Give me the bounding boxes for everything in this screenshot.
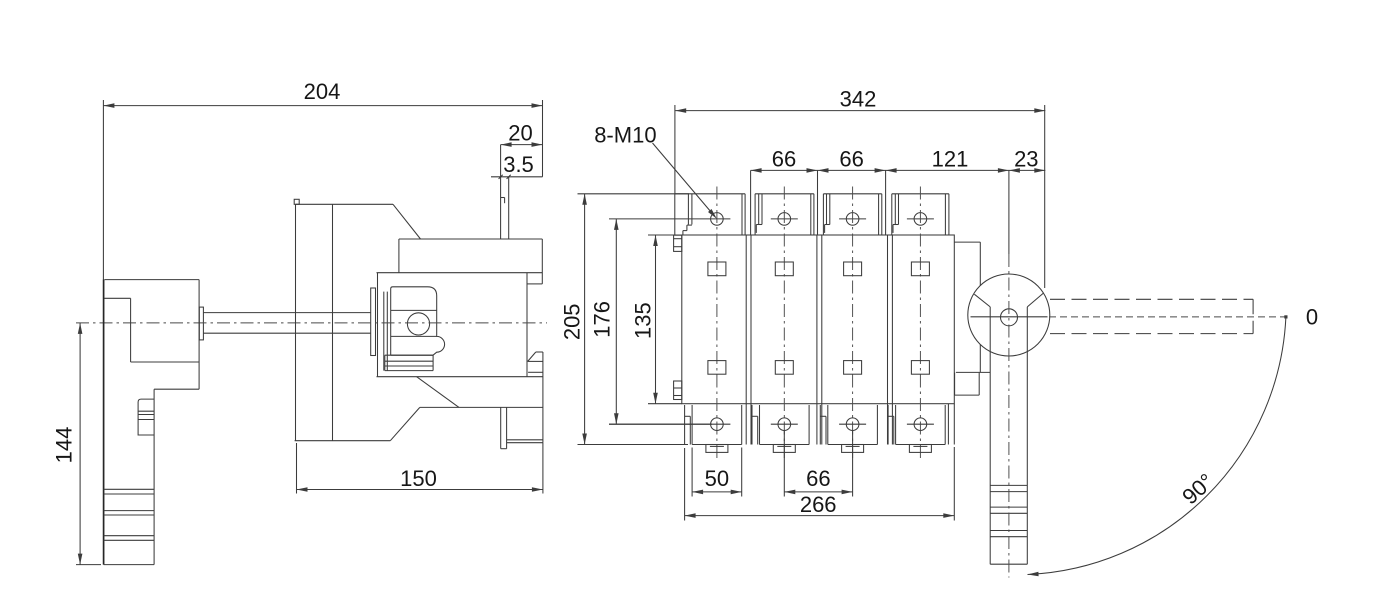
dimension row 66 66 121 23 bbox=[751, 147, 1046, 255]
front view bottom terminal hole 1 (M10) bbox=[609, 418, 730, 431]
dimension 66 bottom (hole spacing) bbox=[784, 430, 852, 497]
front view top terminal tab 1 bbox=[675, 194, 745, 235]
svg-text:150: 150 bbox=[400, 466, 437, 491]
dimension 135 (body height) bbox=[631, 235, 682, 404]
front view bottom terminal hole 3 (M10) bbox=[839, 418, 866, 431]
front view bottom terminal hole 4 (M10) bbox=[907, 418, 934, 431]
front view top terminal tab 4 bbox=[892, 194, 949, 235]
front view left mounting clips bbox=[674, 235, 682, 399]
svg-text:23: 23 bbox=[1014, 147, 1038, 172]
front view handle arm bbox=[990, 254, 1027, 578]
side view upper housing bbox=[377, 239, 543, 284]
front view cover squares bbox=[708, 262, 930, 374]
front view bottom terminal tab 4 bbox=[888, 405, 945, 445]
label 90 degrees bbox=[1177, 469, 1218, 510]
front view top terminal hole 4 (M10) bbox=[907, 213, 934, 226]
side view mounting plate bbox=[294, 199, 420, 440]
front view bottom terminal foot 1 bbox=[706, 445, 728, 453]
front view bottom terminal foot 4 bbox=[909, 445, 931, 453]
front view bottom terminal foot 2 bbox=[773, 445, 795, 453]
svg-text:3.5: 3.5 bbox=[503, 152, 534, 177]
side view shaft bbox=[199, 307, 370, 340]
dimension 205 (front view height) bbox=[560, 194, 689, 445]
svg-text:66: 66 bbox=[806, 466, 830, 491]
side view horizontal centerline bbox=[76, 322, 547, 324]
front view handle hub bbox=[968, 274, 1050, 356]
front view top terminal tab 3 bbox=[823, 194, 881, 235]
svg-text:342: 342 bbox=[840, 87, 877, 112]
front view bottom terminal tab 1 bbox=[685, 405, 742, 445]
svg-text:66: 66 bbox=[839, 147, 863, 172]
front view bottom terminal foot 3 bbox=[842, 445, 864, 453]
dimension 150 (side view base width) bbox=[297, 443, 543, 494]
dimension 3.5 (terminal plate thickness) bbox=[491, 152, 543, 179]
svg-text:121: 121 bbox=[932, 147, 969, 172]
side view handle grip bbox=[138, 399, 154, 435]
front view bottom terminal hole 2 (M10) bbox=[771, 418, 798, 431]
dimension 204 (side view overall width) bbox=[103, 79, 542, 280]
front view top terminal hole 3 (M10) bbox=[839, 213, 866, 226]
svg-text:266: 266 bbox=[800, 492, 837, 517]
front view handle side bracket bbox=[954, 242, 990, 395]
front view top terminal hole 1 (M10) bbox=[609, 213, 730, 226]
side view bottom flange bracket bbox=[385, 355, 433, 370]
dimension 50 (bottom tab width) bbox=[692, 448, 742, 497]
front view pole divider walls bbox=[746, 235, 892, 404]
svg-text:0: 0 bbox=[1306, 305, 1318, 330]
side view bottom terminal plate bbox=[501, 407, 543, 448]
svg-text:144: 144 bbox=[52, 427, 77, 464]
side view inner mechanism plate bbox=[391, 287, 445, 355]
dimension 20 (terminal region width) bbox=[501, 121, 543, 177]
front view pole centerlines bbox=[717, 187, 921, 462]
side view shaft hole circle bbox=[407, 313, 429, 335]
svg-text:66: 66 bbox=[772, 147, 796, 172]
front view bottom terminal tab 2 bbox=[752, 405, 809, 445]
front view top terminal tab 2 bbox=[755, 194, 814, 235]
front view body outline bbox=[682, 235, 955, 404]
label 0 bbox=[1306, 305, 1318, 330]
front view top terminal hole 2 (M10) bbox=[771, 213, 798, 226]
svg-text:135: 135 bbox=[631, 302, 656, 339]
side view top terminal plate bbox=[501, 177, 509, 239]
side view shaft bearing plate bbox=[371, 288, 388, 371]
front view divider walls below body bbox=[746, 404, 954, 445]
svg-text:204: 204 bbox=[304, 79, 341, 104]
side view mechanism box bbox=[377, 273, 543, 377]
svg-text:205: 205 bbox=[560, 303, 585, 340]
handle at 0 position (dashed) bbox=[1049, 299, 1286, 333]
svg-text:176: 176 bbox=[590, 301, 615, 338]
side view lower housing bbox=[417, 352, 543, 443]
side view handle bracket bbox=[104, 280, 200, 565]
dimension 176 (hole spacing) bbox=[590, 219, 713, 424]
side view handle ridges bbox=[104, 489, 155, 540]
dimension 144 (handle height) bbox=[52, 323, 102, 565]
rotation arc 90 degrees bbox=[1028, 315, 1288, 576]
label 8-M10 with leader bbox=[594, 123, 717, 219]
svg-text:50: 50 bbox=[705, 466, 729, 491]
dimension 266 (mounting width) bbox=[685, 447, 955, 521]
front view bottom terminal tab 3 bbox=[820, 405, 877, 445]
dimension 342 (front view overall width) bbox=[675, 87, 1045, 289]
svg-text:8-M10: 8-M10 bbox=[594, 123, 656, 148]
svg-text:20: 20 bbox=[508, 121, 532, 146]
